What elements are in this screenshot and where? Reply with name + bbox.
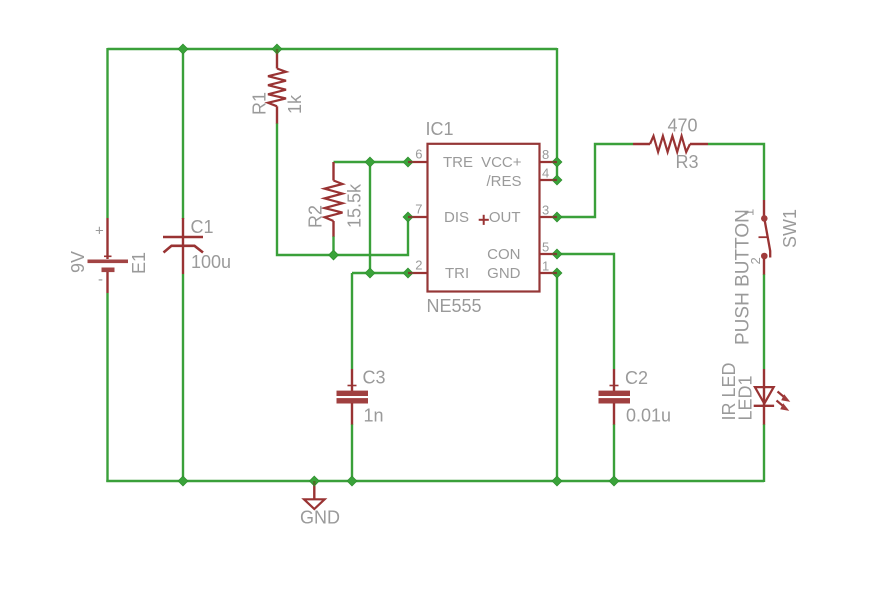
battery E1: [68, 218, 149, 293]
junction pin2: [403, 268, 413, 278]
wire C2 bottom: [613, 424, 615, 481]
svg-text:PUSH BUTTON: PUSH BUTTON: [733, 209, 754, 345]
junction pin1: [552, 268, 562, 278]
pin 5 CON: [540, 253, 558, 255]
pin 6 TRE: [404, 161, 428, 163]
svg-text:GND: GND: [487, 265, 521, 282]
svg-text:/RES: /RES: [486, 173, 521, 190]
svg-text:3: 3: [542, 203, 549, 218]
pin 4 /RES: [540, 179, 558, 181]
switch SW1 push button: [733, 200, 801, 345]
resistor R1: [250, 49, 306, 124]
junction rail C1: [178, 476, 188, 486]
wire battery bottom lead: [106, 293, 108, 482]
junction TRE mid: [365, 157, 375, 167]
junction TRI mid: [365, 268, 375, 278]
wire C1 top: [182, 49, 184, 219]
svg-text:R2: R2: [306, 205, 326, 228]
wire LED1 bottom: [763, 424, 765, 482]
wire SW1 to LED1: [763, 274, 765, 369]
svg-text:GND: GND: [300, 508, 340, 528]
svg-text:+: +: [95, 223, 104, 240]
junction rail GND: [309, 476, 319, 486]
svg-text:7: 7: [415, 202, 422, 217]
pin 7 DIS: [404, 216, 428, 218]
wire R3 to SW1: [708, 144, 764, 200]
svg-text:5: 5: [542, 240, 549, 255]
junction R2 bottom: [329, 250, 339, 260]
wire TRI row: [352, 272, 408, 274]
wire TRE node horizontal: [334, 161, 409, 163]
svg-text:IC1: IC1: [426, 119, 454, 139]
svg-text:C1: C1: [191, 217, 214, 237]
svg-text:0.01u: 0.01u: [626, 406, 671, 426]
svg-text:-: -: [98, 271, 103, 288]
junction pin7: [403, 212, 413, 222]
op-amp IC1 NE555: [404, 119, 557, 316]
wire C1 bottom: [182, 274, 184, 481]
junction rail C2: [609, 476, 619, 486]
ground: [300, 481, 340, 528]
svg-text:C2: C2: [625, 368, 648, 388]
wire TRE to TRI vertical: [369, 162, 371, 273]
pin 2 TRI: [404, 272, 428, 274]
pin 1 GND: [540, 272, 558, 274]
junction pin3: [552, 212, 562, 222]
resistor R3: [633, 116, 708, 173]
junction rail pin1: [552, 476, 562, 486]
pin 8 VCC+: [540, 161, 558, 163]
svg-text:15.5k: 15.5k: [345, 183, 365, 228]
svg-text:TRE: TRE: [443, 154, 473, 171]
junction C1 top: [178, 44, 188, 54]
svg-text:R3: R3: [676, 152, 699, 172]
svg-text:CON: CON: [487, 246, 520, 263]
svg-text:SW1: SW1: [780, 209, 800, 248]
svg-text:OUT: OUT: [489, 209, 521, 226]
junction rail C3: [347, 476, 357, 486]
svg-text:1: 1: [542, 259, 549, 274]
wire VCC RES drop: [556, 48, 558, 180]
svg-text:VCC+: VCC+: [481, 154, 522, 171]
junction core blends: [276, 49, 278, 54]
junction pin4: [552, 175, 562, 185]
svg-text:C3: C3: [363, 368, 386, 388]
junction pin5: [552, 249, 562, 259]
svg-text:9V: 9V: [68, 251, 88, 273]
svg-text:2: 2: [415, 258, 422, 273]
svg-text:1n: 1n: [364, 406, 384, 426]
svg-text:470: 470: [668, 116, 698, 136]
capacitor C1: [163, 217, 231, 274]
junction pin6: [403, 157, 413, 167]
svg-text:100u: 100u: [191, 252, 231, 272]
LED LED1: [719, 362, 790, 424]
svg-text:6: 6: [415, 147, 422, 162]
wire TRI down to C3: [351, 273, 353, 369]
capacitor C2: [599, 368, 672, 426]
wire OUT to R3: [557, 144, 633, 217]
svg-text:R1: R1: [250, 92, 270, 115]
wire CON to C2: [557, 254, 614, 369]
svg-text:DIS: DIS: [444, 209, 469, 226]
junction pin8: [552, 157, 562, 167]
svg-text:TRI: TRI: [445, 265, 469, 282]
wire top rail V+: [108, 48, 558, 50]
resistor R2: [306, 162, 365, 237]
wire bottom ground rail: [106, 480, 764, 482]
svg-text:E1: E1: [129, 252, 149, 274]
svg-text:4: 4: [542, 166, 549, 181]
wire IC GND pin1 down: [556, 273, 558, 481]
wire C3 bottom: [351, 424, 353, 481]
wire battery top lead: [106, 48, 108, 218]
pin 3 OUT: [540, 216, 558, 218]
wire R1 bottom to DIS node: [277, 123, 408, 255]
svg-text:1k: 1k: [285, 94, 305, 114]
svg-text:8: 8: [542, 147, 549, 162]
svg-text:NE555: NE555: [427, 296, 482, 316]
LED arrows: [778, 392, 786, 398]
junction R1 top: [272, 44, 282, 54]
wire R2 bottom stub: [332, 236, 334, 255]
svg-text:LED1: LED1: [736, 375, 756, 420]
capacitor C3: [337, 368, 386, 426]
